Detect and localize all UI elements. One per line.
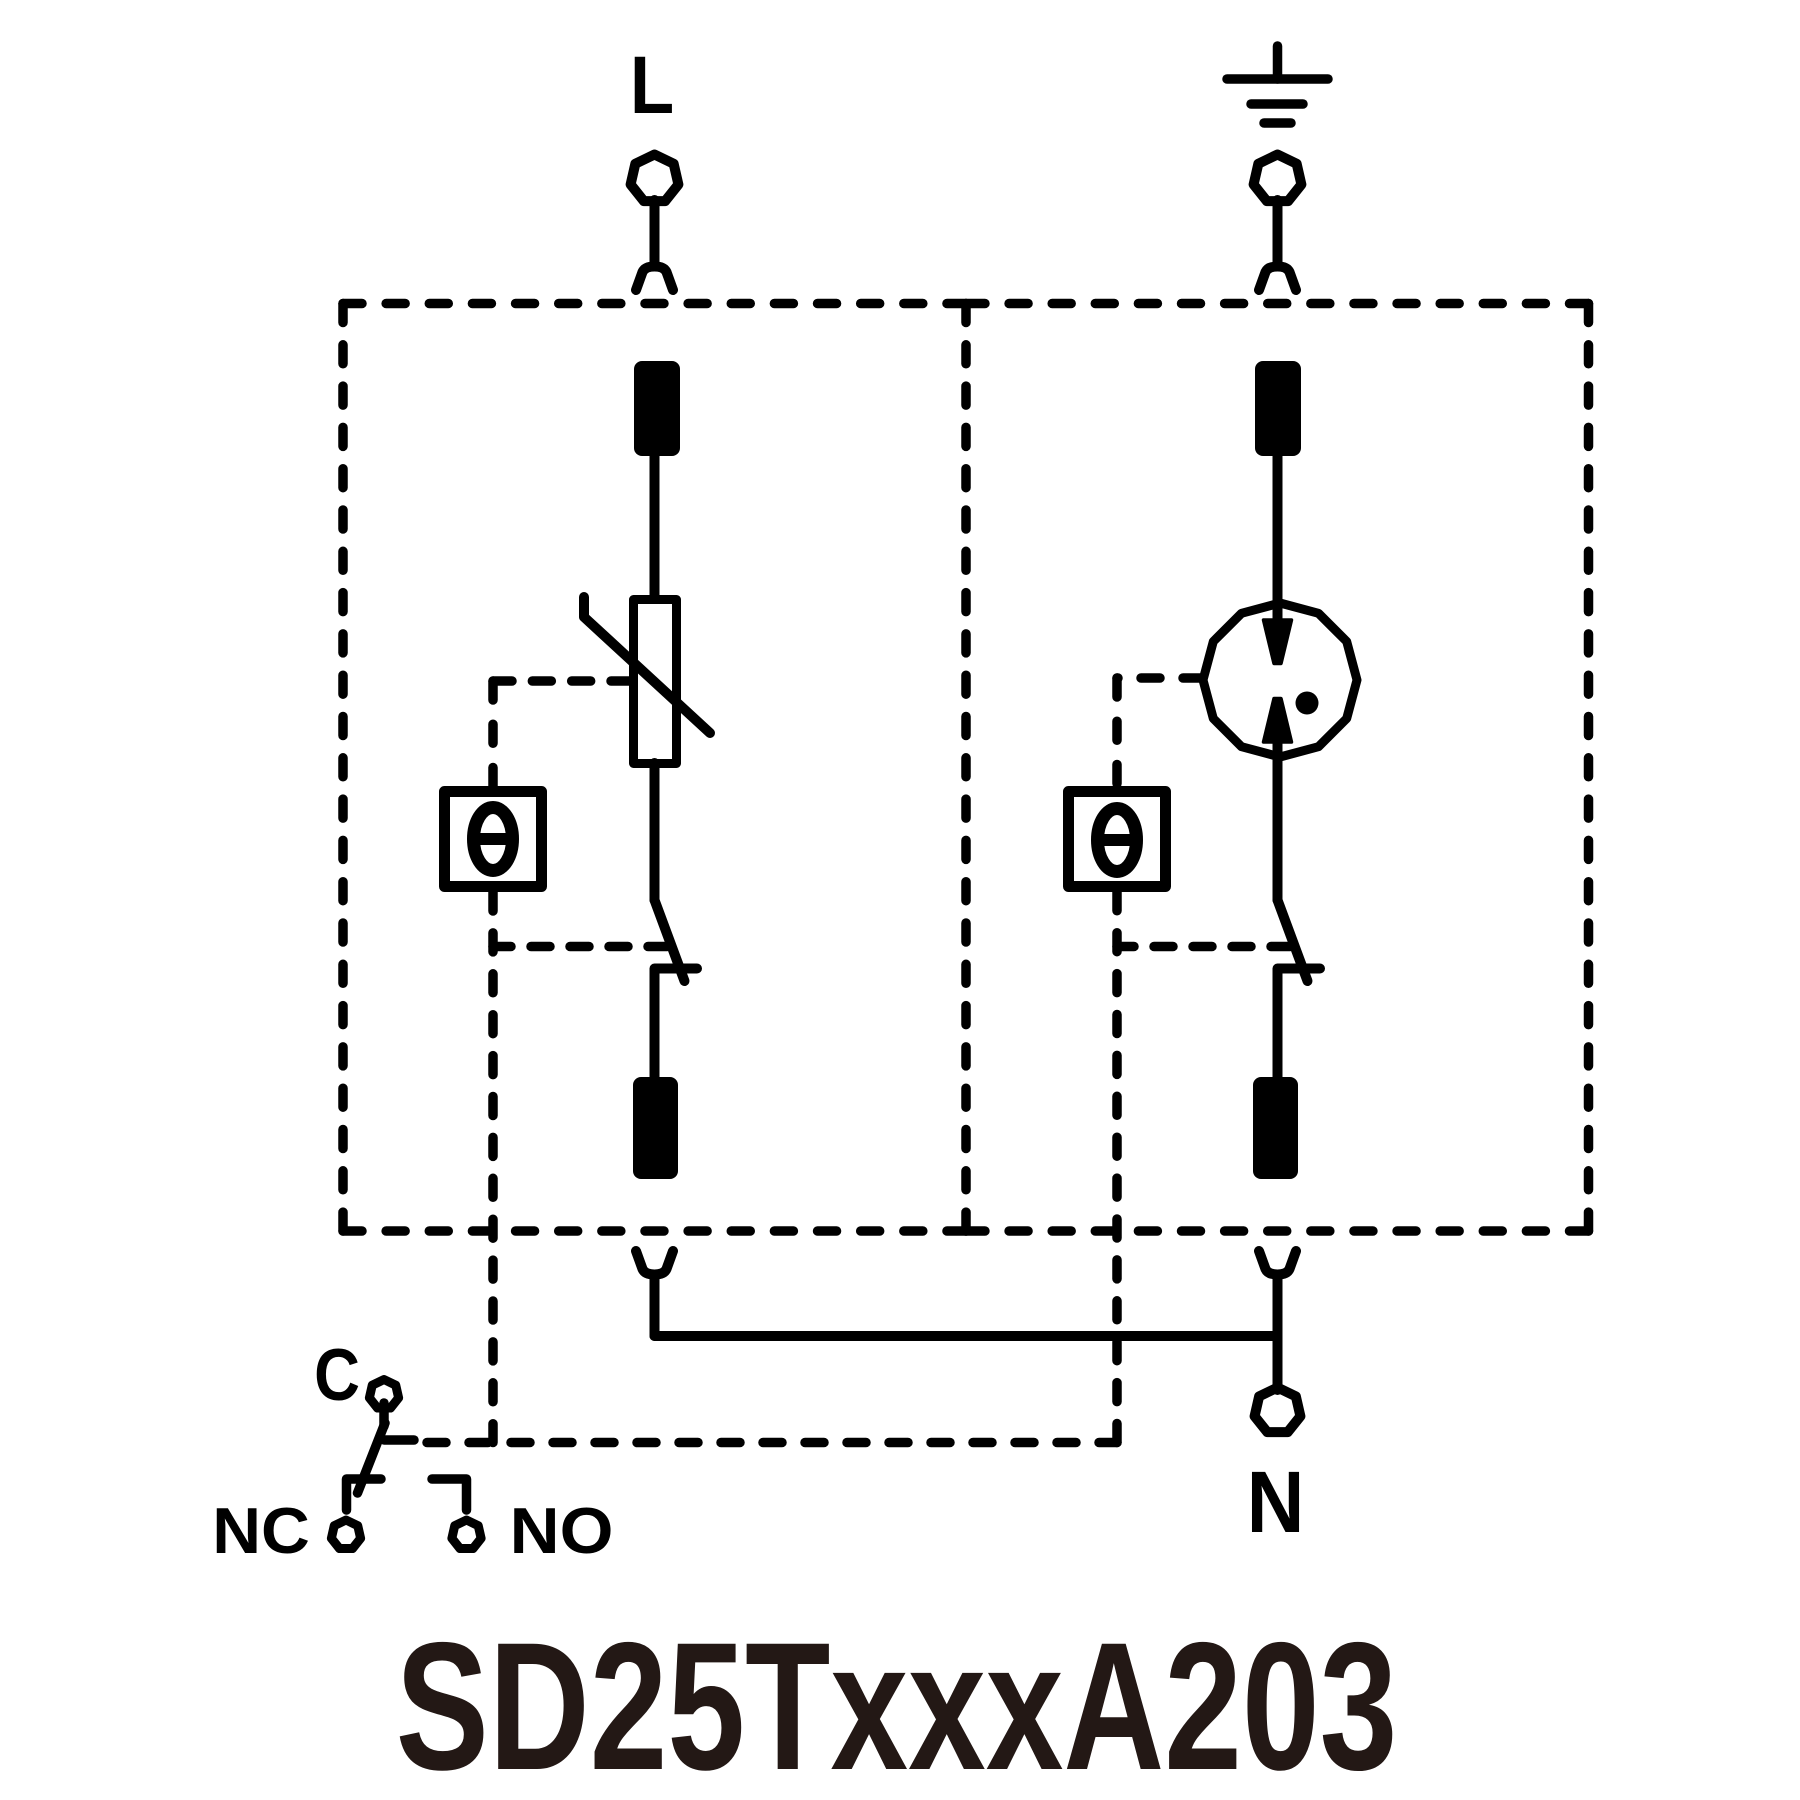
- svg-text:N: N: [1247, 1453, 1305, 1551]
- svg-text:NC: NC: [212, 1495, 310, 1568]
- svg-text:SD25TxxxA203: SD25TxxxA203: [396, 1605, 1398, 1800]
- svg-text:NO: NO: [510, 1495, 614, 1568]
- svg-text:L: L: [630, 40, 674, 131]
- svg-text:C: C: [314, 1335, 360, 1416]
